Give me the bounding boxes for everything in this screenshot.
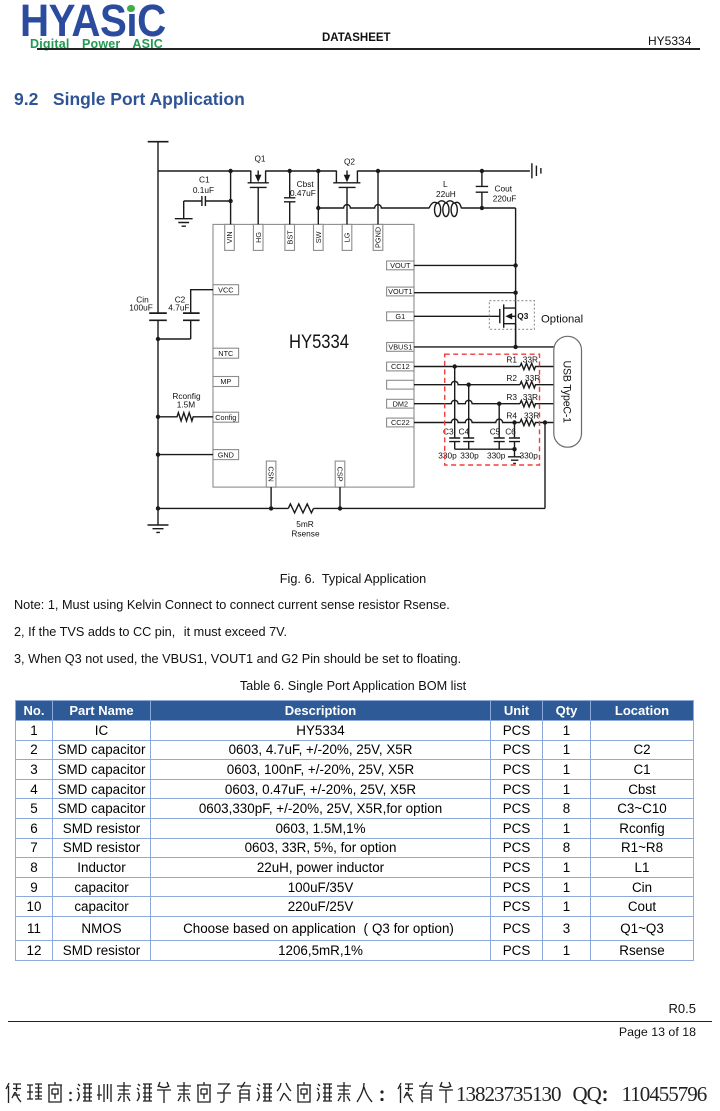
pin SW [314, 224, 324, 250]
resistor R2 33R [506, 373, 553, 388]
svg-text:VCC: VCC [218, 285, 233, 294]
footer agent line (CJK drawn as strokes) [0, 1080, 720, 1108]
svg-text:100uF: 100uF [129, 302, 153, 312]
wire CC12 [414, 366, 520, 368]
ground below C1 [175, 219, 193, 227]
junction VIN-C1 top [228, 169, 232, 173]
wire VCC to C2 [191, 290, 213, 313]
pin PGND [373, 224, 383, 250]
svg-text:33R: 33R [523, 392, 538, 402]
junction CC22-C6 [512, 420, 516, 424]
svg-text:1.5M: 1.5M [177, 400, 196, 410]
svg-text:NTC: NTC [218, 349, 233, 358]
capacitor Cin [129, 294, 167, 320]
svg-text:5mR: 5mR [296, 519, 314, 529]
footer rule [8, 1021, 712, 1022]
svg-text:PGND: PGND [374, 227, 383, 248]
svg-text:G1: G1 [395, 312, 405, 321]
svg-text:USB TypeC-1: USB TypeC-1 [561, 361, 573, 424]
svg-text:33R: 33R [525, 373, 540, 383]
capacitor C5 330p [487, 404, 506, 461]
figure caption [0, 572, 706, 586]
svg-text:33R: 33R [523, 355, 538, 365]
logo i green dot [126, 0, 137, 14]
svg-text:330p: 330p [438, 451, 457, 461]
junction GND rail bottom [156, 506, 160, 510]
svg-text:Q3: Q3 [517, 311, 528, 321]
svg-text:VOUT: VOUT [390, 261, 411, 270]
svg-text:VOUT1: VOUT1 [388, 287, 412, 296]
wire CSP drop [339, 487, 341, 508]
wire GND left rail lower [157, 320, 159, 525]
svg-text:SW: SW [314, 231, 323, 243]
svg-text:MP: MP [220, 377, 231, 386]
junction CC12-C3 [453, 364, 457, 368]
pin GND [213, 450, 239, 460]
capacitor Cout [476, 171, 517, 208]
svg-text:CC22: CC22 [391, 418, 410, 427]
wire VIN left rail upper [157, 142, 159, 313]
svg-text:GND: GND [218, 450, 234, 459]
capacitor Cbst [284, 171, 316, 224]
svg-text:Rsense: Rsense [291, 529, 320, 539]
junction GND-Cout top [480, 169, 484, 173]
resistor R1 33R [506, 355, 553, 370]
svg-text:C4: C4 [458, 427, 469, 437]
header rule [37, 48, 700, 50]
junction VBUS1-Q3 source [513, 345, 517, 349]
junction VIN-C1 [228, 199, 232, 203]
capacitor C2 [158, 294, 200, 339]
wire VOUT from inductor [462, 207, 516, 209]
resistor R3 33R [506, 392, 553, 407]
wire CC22 with hops [414, 419, 520, 422]
pin CC12 [387, 362, 414, 371]
svg-text:0.1uF: 0.1uF [193, 185, 214, 195]
wire SW to inductor with hops [318, 205, 429, 208]
pin VCC [213, 285, 239, 295]
svg-text:VBUS1: VBUS1 [388, 343, 412, 352]
svg-text:Optional: Optional [541, 314, 583, 326]
svg-text:CSP: CSP [335, 467, 344, 482]
wire bottom GND run [158, 507, 545, 509]
junction GND rail C2 [156, 337, 160, 341]
svg-text:330p: 330p [460, 451, 479, 461]
wire CC22 to bottom GND [544, 423, 546, 509]
junction CC22-GND return [543, 420, 547, 424]
note 2 [14, 625, 287, 639]
BOM table [15, 700, 694, 961]
svg-text:CC12: CC12 [391, 362, 410, 371]
pin BST [285, 224, 295, 250]
pin CSN [266, 461, 276, 487]
junction VOUT-Cout bottom [480, 206, 484, 210]
revision [0, 1001, 696, 1016]
note 3 [14, 652, 461, 666]
wire CSN drop [270, 487, 272, 508]
DATASHEET [322, 32, 391, 44]
pin NTC [213, 348, 239, 358]
IC U1 HY5334 body [213, 224, 414, 487]
svg-text:HY5334: HY5334 [289, 331, 349, 353]
svg-text:22uH: 22uH [436, 189, 456, 199]
wire VOUT pin [414, 264, 516, 266]
junction GND rail GND pin [156, 452, 160, 456]
red option box [445, 354, 540, 465]
wire PGND riser [377, 171, 379, 224]
note 1 [14, 598, 450, 612]
wire VOUT right column [515, 208, 517, 347]
wire Q3 to VBUS1 [515, 324, 517, 347]
junction SW-Cbst [288, 169, 292, 173]
junction SW riser top [316, 169, 320, 173]
svg-text:HG: HG [254, 232, 263, 243]
pin Config [213, 412, 239, 422]
svg-text:L: L [443, 179, 448, 189]
svg-text:C6: C6 [505, 427, 516, 437]
pin VOUT1 [387, 287, 414, 296]
junction CSN bottom [269, 506, 273, 510]
pin VOUT [387, 261, 414, 270]
junction VOUT pin [513, 263, 517, 267]
part number [648, 34, 691, 48]
pin G1 [387, 312, 414, 321]
table caption [0, 679, 706, 693]
pin unnamed [387, 380, 414, 389]
page number [0, 1025, 696, 1039]
wire DM2 with hops [414, 400, 520, 403]
pin LG [342, 224, 352, 250]
svg-text:R4: R4 [506, 411, 517, 421]
junction GND-PGND riser [376, 169, 380, 173]
svg-text:Q1: Q1 [254, 154, 265, 164]
junction DM2-C5 [497, 402, 501, 406]
footer QQ [573, 1084, 601, 1105]
junction CSP bottom [338, 506, 342, 510]
svg-text:Config: Config [215, 413, 236, 422]
logo subtitle [30, 37, 163, 51]
svg-text:0.47uF: 0.47uF [290, 188, 316, 198]
wire cap common [455, 448, 515, 450]
transistor Q1 [248, 154, 269, 225]
section heading [14, 89, 245, 110]
junction VOUT1-Q3 drain [513, 291, 517, 295]
wire G1 pin [414, 315, 500, 317]
inductor L 22uH [429, 179, 462, 217]
ground below C6 [508, 449, 521, 463]
wire GND pin to rail [158, 454, 213, 456]
wire VIN top [158, 170, 530, 172]
svg-text:R3: R3 [506, 392, 517, 402]
footer phone number [456, 1084, 561, 1105]
svg-text:Cout: Cout [495, 184, 513, 194]
pin MP [213, 377, 239, 387]
junction SW wire [316, 206, 320, 210]
connector USB TypeC-1 [554, 336, 582, 447]
resistor Rconfig 1.5M [158, 391, 213, 421]
pin CC22 [387, 418, 414, 427]
ground bottom left [148, 525, 169, 532]
svg-text:C1: C1 [199, 175, 210, 185]
capacitor C3 330p [438, 367, 460, 461]
svg-text:330p: 330p [487, 451, 506, 461]
ground top right [532, 163, 541, 178]
capacitor C1 [184, 175, 231, 219]
node VIN input terminal [148, 141, 169, 143]
transistor Q3 optional [489, 301, 534, 330]
pin CSP [335, 461, 345, 487]
logo HYASiC [20, 0, 166, 43]
wire SW riser [317, 171, 319, 224]
svg-text:33R: 33R [524, 411, 539, 421]
svg-text:R2: R2 [506, 373, 517, 383]
capacitor C4 330p [458, 385, 479, 461]
svg-text:VIN: VIN [225, 231, 234, 243]
junction C6-common [512, 447, 516, 451]
svg-text:4.7uF: 4.7uF [168, 302, 189, 312]
junction GND rail Rconfig [156, 415, 160, 419]
wire VOUT1 pin [414, 292, 516, 294]
svg-text:DM2: DM2 [393, 399, 408, 408]
svg-text:CSN: CSN [267, 466, 276, 481]
svg-text:LG: LG [343, 232, 352, 242]
capacitor C6 330p [505, 423, 538, 461]
pin VBUS1 [387, 343, 414, 352]
resistor R4 33R [506, 411, 553, 426]
svg-text:BST: BST [285, 230, 294, 245]
wire VIN pin drop [230, 171, 232, 224]
svg-text:C5: C5 [490, 427, 501, 437]
svg-text:R1: R1 [506, 355, 517, 365]
footer QQ number [622, 1084, 707, 1105]
pin VIN [225, 224, 235, 250]
pin DM2 [387, 399, 414, 408]
wire CC2 with hop [414, 381, 520, 384]
wire VBUS1 to USB [414, 346, 554, 348]
pin HG [253, 224, 263, 250]
junction CC2-C4 [467, 383, 471, 387]
svg-text:Q2: Q2 [344, 157, 355, 167]
svg-text:220uF: 220uF [493, 193, 517, 203]
transistor Q2 [333, 157, 360, 225]
svg-text:330p: 330p [519, 451, 538, 461]
resistor Rsense 5mR [288, 504, 320, 539]
